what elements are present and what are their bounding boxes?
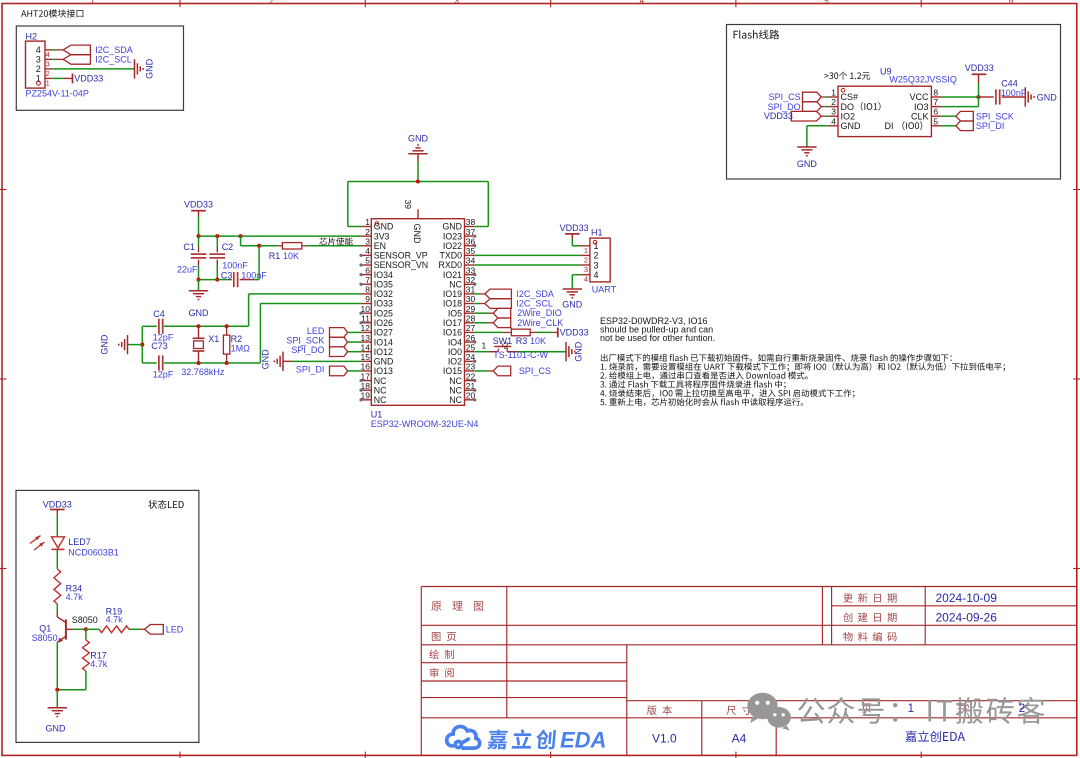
svg-text:2: 2 [46, 69, 50, 78]
svg-text:IO2: IO2 [448, 357, 462, 367]
svg-text:not be used for other funtion.: not be used for other funtion. [600, 333, 715, 343]
svg-text:4: 4 [36, 45, 41, 55]
svg-text:SPI_SCK: SPI_SCK [976, 112, 1014, 122]
svg-text:2: 2 [504, 341, 509, 351]
svg-text:LED: LED [307, 326, 325, 336]
svg-text:25: 25 [466, 342, 476, 352]
svg-text:3: 3 [594, 260, 599, 270]
svg-text:7: 7 [365, 275, 370, 285]
svg-text:VDD33: VDD33 [764, 111, 793, 121]
svg-text:C1: C1 [183, 242, 195, 252]
svg-text:VDD33: VDD33 [560, 327, 589, 337]
svg-text:34: 34 [466, 256, 476, 266]
svg-text:VDD33: VDD33 [74, 74, 103, 84]
svg-text:DI: DI [884, 121, 893, 131]
svg-text:IO3: IO3 [914, 102, 929, 112]
svg-text:IO2: IO2 [841, 111, 856, 121]
svg-text:SPI_CS: SPI_CS [769, 92, 801, 102]
svg-text:GND: GND [1037, 92, 1058, 102]
svg-text:3: 3 [584, 265, 588, 274]
svg-text:VDD33: VDD33 [965, 63, 994, 73]
svg-text:NC: NC [374, 395, 387, 405]
svg-text:VDD33: VDD33 [560, 223, 589, 233]
svg-text:V1.0: V1.0 [652, 732, 677, 746]
svg-text:S8050: S8050 [72, 615, 98, 625]
svg-text:H2: H2 [26, 31, 38, 41]
svg-text:NC: NC [449, 385, 462, 395]
svg-text:I2C_SDA: I2C_SDA [516, 289, 554, 299]
svg-text:2: 2 [365, 227, 370, 237]
svg-text:2: 2 [594, 251, 599, 261]
svg-text:11: 11 [361, 314, 370, 324]
svg-text:2: 2 [269, 0, 274, 5]
svg-text:EN: EN [374, 241, 386, 251]
svg-text:I2C_SCL: I2C_SCL [516, 299, 553, 309]
svg-text:SPI_DI: SPI_DI [976, 121, 1005, 131]
svg-text:GND: GND [374, 222, 394, 232]
svg-text:GND: GND [574, 341, 584, 362]
svg-text:SPI_CS: SPI_CS [519, 366, 551, 376]
svg-text:30: 30 [466, 294, 476, 304]
svg-text:5: 5 [365, 256, 370, 266]
svg-text:4.7k: 4.7k [106, 615, 124, 625]
svg-text:EDA: EDA [560, 728, 606, 753]
svg-text:NC: NC [449, 395, 462, 405]
svg-text:C44: C44 [1001, 79, 1018, 89]
svg-text:13: 13 [361, 333, 371, 343]
svg-text:100nF: 100nF [1001, 88, 1027, 98]
svg-text:IO34: IO34 [374, 270, 393, 280]
svg-text:27: 27 [466, 323, 476, 333]
svg-text:23: 23 [466, 362, 476, 372]
svg-text:6: 6 [933, 107, 938, 117]
svg-text:IO21: IO21 [443, 270, 462, 280]
svg-text:8: 8 [365, 285, 370, 295]
svg-text:3: 3 [365, 236, 370, 246]
svg-text:3: 3 [46, 59, 50, 68]
svg-text:9: 9 [365, 294, 370, 304]
svg-text:CLK: CLK [911, 111, 929, 121]
svg-text:SPI_DO: SPI_DO [291, 345, 324, 355]
svg-text:C3: C3 [221, 271, 233, 281]
svg-text:S8050: S8050 [32, 633, 58, 643]
svg-text:A4: A4 [732, 732, 747, 746]
svg-text:W25Q32JVSSIQ: W25Q32JVSSIQ [889, 75, 957, 85]
svg-text:3: 3 [36, 55, 41, 65]
svg-text:5: 5 [824, 0, 829, 5]
svg-text:VDD33: VDD33 [43, 500, 72, 510]
svg-text:U1: U1 [371, 409, 383, 419]
svg-text:VDD33: VDD33 [184, 199, 213, 209]
svg-text:31: 31 [466, 285, 476, 295]
svg-text:GND: GND [562, 300, 583, 310]
svg-text:2: 2 [584, 255, 588, 264]
svg-text:38: 38 [466, 217, 476, 227]
svg-text:GND: GND [841, 121, 862, 131]
svg-text:Q1: Q1 [39, 624, 51, 634]
svg-text:2: 2 [831, 97, 836, 107]
svg-text:IO0: IO0 [448, 347, 462, 357]
svg-text:NC: NC [449, 376, 462, 386]
svg-text:SENSOR_VN: SENSOR_VN [374, 260, 428, 270]
svg-text:2024-09-26: 2024-09-26 [936, 611, 998, 625]
svg-text:GND: GND [412, 224, 422, 245]
svg-text:100nF: 100nF [241, 271, 267, 281]
svg-text:5: 5 [933, 116, 938, 126]
svg-text:GND: GND [261, 349, 271, 370]
svg-text:NC: NC [374, 376, 387, 386]
svg-text:R1: R1 [269, 251, 281, 261]
svg-text:IO13: IO13 [374, 366, 393, 376]
svg-text:2Wire_CLK: 2Wire_CLK [517, 318, 563, 328]
svg-text:GND: GND [145, 58, 155, 79]
svg-text:2024-10-09: 2024-10-09 [936, 591, 998, 605]
svg-text:C73: C73 [151, 341, 168, 351]
svg-text:GND: GND [408, 134, 429, 144]
svg-text:IO19: IO19 [443, 289, 462, 299]
svg-text:GND: GND [100, 334, 110, 355]
svg-text:IO25: IO25 [374, 308, 393, 318]
svg-text:IO18: IO18 [443, 299, 462, 309]
svg-text:IO26: IO26 [374, 318, 393, 328]
svg-text:DO: DO [841, 102, 855, 112]
svg-text:IO16: IO16 [443, 328, 462, 338]
svg-text:IO12: IO12 [374, 347, 393, 357]
svg-text:4: 4 [640, 0, 645, 5]
svg-text:32.768kHz: 32.768kHz [181, 367, 225, 377]
svg-text:IO27: IO27 [374, 328, 393, 338]
svg-text:GND: GND [46, 723, 67, 733]
svg-text:NCD0603B1: NCD0603B1 [68, 548, 119, 558]
svg-text:GND: GND [374, 357, 394, 367]
svg-text:SPI_DI: SPI_DI [296, 364, 325, 374]
svg-text:100nF: 100nF [222, 261, 248, 271]
svg-text:NC: NC [449, 279, 462, 289]
svg-text:IO32: IO32 [374, 289, 393, 299]
svg-text:TXD0: TXD0 [440, 251, 463, 261]
svg-text:IO33: IO33 [374, 299, 393, 309]
svg-text:IO22: IO22 [443, 241, 462, 251]
svg-text:PZ254V-11-04P: PZ254V-11-04P [26, 89, 89, 99]
svg-text:1: 1 [90, 0, 95, 5]
svg-text:IO4: IO4 [448, 337, 462, 347]
svg-text:I2C_SDA: I2C_SDA [95, 45, 133, 55]
svg-text:VCC: VCC [909, 92, 929, 102]
svg-text:UART: UART [592, 285, 617, 295]
svg-text:12pF: 12pF [153, 369, 174, 379]
svg-text:IO14: IO14 [374, 337, 393, 347]
svg-text:4.7k: 4.7k [66, 592, 84, 602]
svg-text:1: 1 [365, 217, 370, 227]
svg-text:4: 4 [831, 116, 836, 126]
svg-text:1: 1 [594, 241, 599, 251]
svg-text:4: 4 [584, 275, 588, 284]
svg-text:CS#: CS# [841, 92, 859, 102]
svg-text:IO35: IO35 [374, 279, 393, 289]
svg-text:4: 4 [365, 246, 370, 256]
svg-text:IO23: IO23 [443, 231, 462, 241]
svg-text:1: 1 [908, 703, 914, 715]
svg-text:GND: GND [189, 308, 210, 318]
svg-text:2Wire_DIO: 2Wire_DIO [517, 308, 562, 318]
svg-text:35: 35 [466, 246, 476, 256]
svg-text:6: 6 [365, 265, 370, 275]
svg-text:15: 15 [361, 352, 371, 362]
svg-text:H1: H1 [591, 227, 603, 237]
svg-text:X1: X1 [208, 334, 219, 344]
svg-text:C2: C2 [222, 242, 234, 252]
svg-text:7: 7 [933, 97, 938, 107]
svg-text:16: 16 [361, 362, 371, 372]
svg-text:4.7k: 4.7k [90, 659, 108, 669]
svg-text:SENSOR_VP: SENSOR_VP [374, 251, 428, 261]
svg-text:4: 4 [594, 270, 599, 280]
svg-text:LED7: LED7 [68, 537, 91, 547]
svg-text:3V3: 3V3 [374, 231, 390, 241]
svg-text:IO17: IO17 [443, 318, 462, 328]
svg-text:3: 3 [831, 107, 836, 117]
svg-text:2: 2 [1019, 703, 1025, 715]
svg-text:10K: 10K [283, 251, 299, 261]
svg-text:LED: LED [166, 624, 184, 634]
svg-text:IO15: IO15 [443, 366, 462, 376]
svg-text:14: 14 [361, 342, 371, 352]
svg-text:39: 39 [403, 200, 413, 210]
svg-text:RXD0: RXD0 [439, 260, 463, 270]
svg-text:1MΩ: 1MΩ [231, 344, 251, 354]
svg-text:1: 1 [46, 78, 50, 87]
svg-text:29: 29 [466, 304, 476, 314]
svg-text:SPI_SCK: SPI_SCK [286, 335, 324, 345]
svg-text:ESP32-WROOM-32UE-N4: ESP32-WROOM-32UE-N4 [371, 419, 479, 429]
svg-text:2: 2 [36, 64, 41, 74]
svg-text:10K: 10K [530, 336, 546, 346]
svg-text:NC: NC [374, 385, 387, 395]
svg-text:R3: R3 [516, 336, 528, 346]
svg-text:6: 6 [1009, 0, 1014, 5]
svg-text:1: 1 [584, 246, 588, 255]
svg-text:1: 1 [481, 341, 486, 351]
svg-text:28: 28 [466, 314, 476, 324]
svg-text:C4: C4 [153, 309, 165, 319]
svg-text:8: 8 [933, 88, 938, 98]
svg-text:12: 12 [361, 323, 371, 333]
svg-text:GND: GND [797, 159, 818, 169]
svg-text:4: 4 [46, 50, 50, 59]
svg-text:22uF: 22uF [177, 265, 198, 275]
svg-text:IO5: IO5 [448, 308, 462, 318]
svg-text:I2C_SCL: I2C_SCL [95, 55, 132, 65]
svg-text:GND: GND [442, 222, 462, 232]
svg-text:3: 3 [454, 0, 459, 5]
svg-text:1: 1 [831, 88, 836, 98]
